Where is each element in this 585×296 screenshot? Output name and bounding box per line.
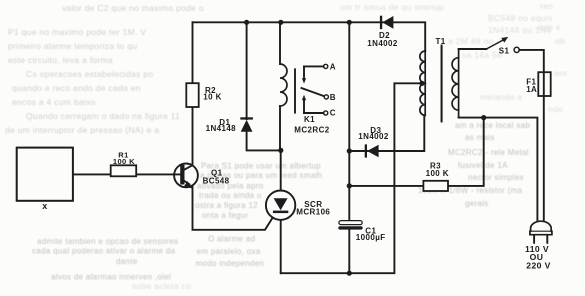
svg-text:ostra a figura 12: ostra a figura 12 [195, 201, 258, 210]
svg-text:MCR106: MCR106 [296, 207, 330, 216]
svg-text:gerais: gerais [465, 199, 489, 208]
svg-text:220 V: 220 V [526, 260, 550, 270]
svg-text:S1: S1 [499, 46, 510, 55]
svg-text:P1 que no maximo pode ter 1M.: P1 que no maximo pode ter 1M. V [8, 27, 146, 37]
svg-text:a 2M 48 ou: a 2M 48 ou [448, 36, 494, 46]
svg-text:mto s: mto s [538, 22, 560, 32]
svg-text:ndo: ndo [548, 104, 563, 114]
svg-text:cada qual poderao ativar o ala: cada qual poderao ativar o alarme da [32, 247, 176, 256]
svg-text:am a rece local sab: am a rece local sab [455, 121, 530, 130]
svg-text:B: B [330, 93, 336, 102]
svg-text:O alarme ad: O alarme ad [208, 235, 255, 244]
svg-text:MC2RC2: MC2RC2 [294, 125, 329, 134]
svg-text:sa 14a 58: sa 14a 58 [462, 50, 502, 60]
svg-text:valor de C2 que no maximo pode: valor de C2 que no maximo pode o [62, 3, 204, 13]
svg-text:1N4148: 1N4148 [206, 124, 237, 133]
svg-text:as mais: as mais [465, 133, 495, 142]
svg-text:de um interruptor de pressao (: de um interruptor de pressao (NA) e a [5, 125, 159, 135]
svg-text:MC2RC2 - rele Metal: MC2RC2 - rele Metal [448, 148, 529, 157]
svg-text:meiando a: meiando a [480, 92, 522, 102]
svg-text:Quando carregam o dado na figu: Quando carregam o dado na figura 11 [26, 111, 180, 121]
svg-text:primeiro alarme temporiza to q: primeiro alarme temporiza to qu [8, 41, 137, 51]
svg-text:um tr amua de qu snoriup: um tr amua de qu snoriup [340, 2, 444, 12]
svg-text:100 K: 100 K [426, 169, 449, 178]
svg-text:em paralelo, oxa: em paralelo, oxa [197, 247, 261, 256]
svg-text:ren: ren [540, 1, 553, 11]
svg-text:BC548: BC548 [203, 176, 230, 185]
svg-text:1A: 1A [526, 85, 537, 94]
svg-text:modo independen: modo independen [196, 259, 265, 268]
svg-text:10 K: 10 K [203, 93, 222, 102]
svg-text:1N4002: 1N4002 [358, 132, 389, 141]
svg-text:dante: dante [116, 257, 138, 266]
svg-text:1000µF: 1000µF [356, 233, 386, 242]
svg-text:Cs operacoes estabelecidas po: Cs operacoes estabelecidas po [26, 69, 153, 79]
svg-text:aro: aro [554, 68, 567, 78]
svg-text:1N4002: 1N4002 [367, 39, 398, 48]
svg-text:este circuito, leva a forma: este circuito, leva a forma [8, 55, 113, 65]
svg-text:ob: ob [555, 36, 565, 46]
svg-text:nector simples: nector simples [468, 173, 524, 182]
svg-text:K1: K1 [304, 115, 315, 124]
svg-text:admite tambien e opcao de sens: admite tambien e opcao de sensores [37, 237, 178, 246]
svg-text:alvos de alarmao innerven ,ol: alvos de alarmao innerven ,olel [51, 273, 171, 282]
svg-text:100 K: 100 K [113, 157, 135, 166]
svg-text:quando e reco ando de cada en: quando e reco ando de cada en [12, 83, 141, 93]
svg-text:sobe acleta co: sobe acleta co [132, 281, 191, 291]
svg-text:T1: T1 [436, 37, 446, 46]
svg-text:trada ou ainda u: trada ou ainda u [199, 191, 262, 200]
svg-text:x: x [42, 201, 47, 211]
svg-text:A: A [330, 62, 336, 71]
svg-text:onta a fegur: onta a fegur [202, 211, 248, 220]
svg-text:C: C [330, 109, 336, 118]
svg-text:encos a 4 cum baixo: encos a 4 cum baixo [12, 97, 96, 107]
